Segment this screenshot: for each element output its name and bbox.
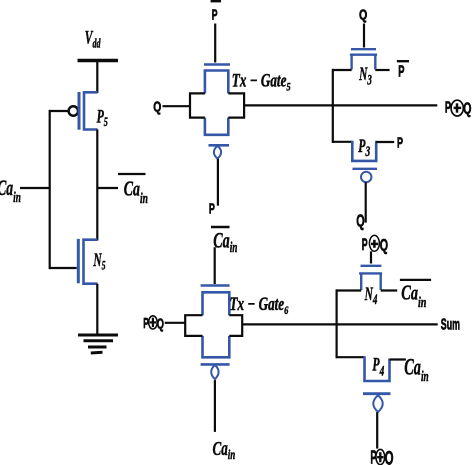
svg-text:Q: Q [463, 99, 471, 117]
svg-text:Tx − Gate6: Tx − Gate6 [230, 295, 290, 317]
wire Tx-Gate6 output rail (Sum) [242, 323, 438, 325]
node Ca_in-bar label (right of N4) [400, 280, 431, 311]
node P-bar (top of Tx-Gate5) [211, 1, 221, 23]
svg-text:P3: P3 [358, 136, 370, 160]
wire P4 left stub [337, 356, 365, 358]
wire P xor Q to N4 gate [370, 251, 372, 263]
transistor P4 [363, 356, 391, 412]
node P xor Q input label (left of Tx-Gate6) [143, 315, 164, 332]
wire P xor Q to Tx-Gate6 [165, 322, 186, 324]
wire N3 right stub [375, 69, 389, 71]
Tx-Gate5 bottom gate bar [209, 144, 230, 147]
wire Ca_in-bar to Tx-Gate6 [214, 247, 216, 284]
wire output stub [97, 187, 118, 189]
svg-text:N5: N5 [93, 250, 106, 273]
wire N5 source to ground [96, 284, 98, 335]
svg-text:Vdd: Vdd [85, 28, 101, 51]
wire N4 right stub [381, 289, 398, 291]
node P xor Q label (top of N4) [362, 235, 388, 255]
node Ca_in-bar label (top of Tx-Gate6) [211, 227, 238, 255]
svg-text:Tx − Gate5: Tx − Gate5 [232, 71, 291, 93]
wire P3 gate to Q [365, 182, 367, 222]
transistor N3 [350, 49, 377, 69]
svg-text:N3: N3 [358, 64, 371, 88]
wire Ca_in input [20, 187, 50, 189]
wire P4 gate to P xor Q [376, 412, 378, 449]
wire Tx-Gate5 bottom gate to P [217, 159, 219, 206]
svg-text:P: P [362, 235, 368, 254]
svg-text:Q: Q [385, 448, 394, 465]
svg-text:Q: Q [359, 5, 367, 22]
svg-text:Cain: Cain [124, 177, 148, 207]
wire P3 right stub [376, 141, 394, 143]
wire Vdd to P5 source [96, 61, 98, 94]
Tx-Gate5 top gate bar [204, 63, 230, 66]
svg-text:P: P [209, 200, 215, 217]
Vdd rail [78, 59, 119, 62]
svg-text:Cain: Cain [213, 437, 236, 462]
wire N4 left stub [337, 289, 362, 291]
Tx-Gate6 bubble [211, 365, 218, 379]
svg-text:Q: Q [356, 212, 364, 231]
svg-text:N4: N4 [364, 284, 377, 308]
transistor N5 [78, 239, 97, 284]
wire vertical N4/P4 to Sum rail [336, 289, 338, 358]
svg-text:P: P [397, 134, 403, 151]
wire N3 left stub [333, 69, 352, 71]
wire N5 gate [50, 267, 77, 269]
node P xor Q label (right) [445, 98, 472, 117]
svg-text:P: P [212, 6, 218, 23]
wire gate of P5 to gate line [50, 110, 69, 112]
wire P4 right stub [390, 358, 406, 360]
svg-text:Q: Q [153, 98, 161, 115]
wire gate line vertical [49, 110, 51, 269]
svg-text:Cain: Cain [213, 228, 237, 255]
svg-text:Cain: Cain [404, 355, 428, 385]
Tx-Gate6 top gate bar [201, 284, 230, 287]
svg-text:Cain: Cain [401, 281, 426, 311]
wire P-bar to Tx-Gate5 top gate [214, 24, 216, 63]
svg-text:Sum: Sum [441, 315, 460, 334]
wire vertical N3/P3 to rail [332, 69, 334, 143]
svg-text:P5: P5 [97, 107, 109, 130]
svg-text:P: P [398, 62, 405, 80]
node P xor Q label (bottom) [370, 448, 393, 465]
wire Tx-Gate5 output rail [244, 104, 437, 106]
Tx-Gate5 bubble [214, 146, 221, 159]
transistor P3 [352, 141, 377, 182]
transistor N4 [359, 266, 382, 290]
transmission gate Tx-Gate6 [185, 292, 242, 357]
wire Tx-Gate6 bottom gate to Ca_in [214, 380, 216, 432]
wire Q to Tx-Gate5 [163, 105, 191, 107]
ground [78, 335, 118, 353]
transistor P5 [69, 92, 98, 130]
wire Q to N3 gate [363, 24, 365, 48]
svg-text:Q: Q [380, 236, 388, 255]
wire P5 drain to N5 drain [96, 130, 98, 241]
Tx-Gate6 bottom gate bar [201, 363, 230, 366]
wire P3 left stub [333, 141, 353, 143]
svg-text:Q: Q [157, 315, 164, 332]
node Ca_in-bar output label [118, 174, 148, 206]
transmission gate Tx-Gate5 [190, 71, 244, 135]
svg-text:Cain: Cain [0, 176, 21, 206]
node P-bar label (right of N3) [397, 61, 409, 80]
svg-text:P4: P4 [372, 355, 384, 379]
